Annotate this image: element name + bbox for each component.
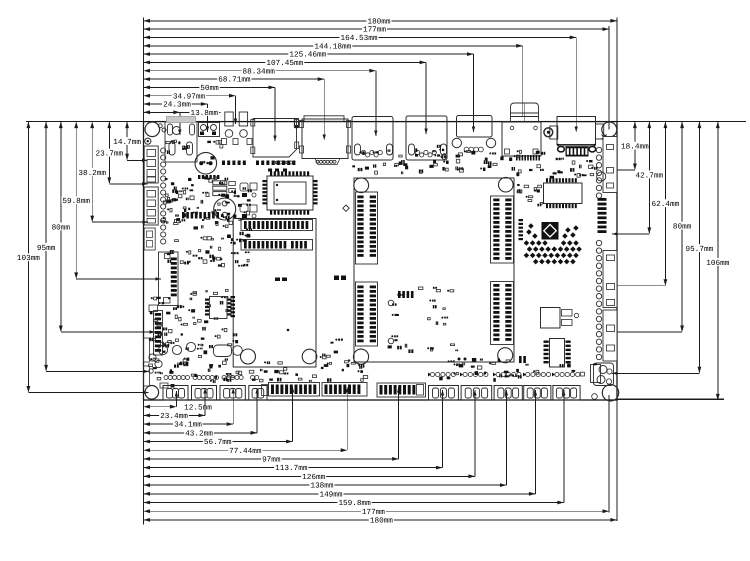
SoM interior circles bbox=[388, 300, 394, 306]
dimension bottom 180mm bbox=[144, 519, 617, 521]
wifi module U10 bottom pads bbox=[270, 210, 272, 214]
wifi module U10 inner bbox=[274, 182, 306, 204]
dimension top 164.53mm bbox=[144, 36, 577, 38]
dimension right 62.4mm bbox=[664, 122, 666, 285]
dimension bottom 126mm bbox=[144, 475, 475, 477]
svg-text:103mm: 103mm bbox=[17, 254, 40, 263]
dimension left 38.2mm bbox=[91, 122, 93, 222]
SoM connector left-bottom bbox=[356, 282, 378, 346]
FPC connector CN8 comb bbox=[149, 305, 158, 312]
audio block bottom-right bbox=[594, 363, 614, 386]
audio jack J3 stem bbox=[225, 112, 233, 126]
mounting hole top-right bbox=[602, 122, 617, 137]
connector block CB1 bbox=[429, 386, 459, 401]
SD slot smd dots bbox=[222, 161, 225, 166]
small comb pair bottom bbox=[519, 356, 522, 363]
mounting hole bottom-left bbox=[145, 386, 159, 400]
left bottom small parts bbox=[160, 383, 168, 388]
dimension top 13.8mm bbox=[144, 111, 221, 113]
svg-text:68.71mm: 68.71mm bbox=[218, 76, 251, 85]
svg-text:77.44mm: 77.44mm bbox=[229, 447, 262, 456]
svg-text:80mm: 80mm bbox=[52, 223, 71, 232]
buzzer BZ1 bbox=[195, 152, 217, 174]
svg-text:177mm: 177mm bbox=[362, 508, 385, 517]
svg-text:138mm: 138mm bbox=[310, 482, 333, 491]
smd pairs left of SoM bbox=[334, 276, 339, 281]
SoM connector left-top bbox=[356, 192, 378, 264]
svg-text:95mm: 95mm bbox=[37, 244, 56, 253]
IC U20 bottom pins bbox=[546, 204, 548, 208]
dimension left 14.7mm bbox=[126, 122, 128, 160]
smd pair inside mPCIe bbox=[275, 278, 280, 282]
reference line top-right horizontal bbox=[617, 121, 746, 123]
svg-text:95.7mm: 95.7mm bbox=[686, 245, 714, 254]
component cluster mid-left bbox=[224, 328, 227, 331]
component cluster SoM interior bbox=[430, 347, 434, 350]
power header comb bbox=[566, 147, 589, 157]
dimension top 34.97mm bbox=[144, 95, 236, 97]
svg-text:62.4mm: 62.4mm bbox=[652, 200, 680, 209]
dimension left 95mm bbox=[45, 122, 47, 371]
IC U22 right pins bbox=[566, 341, 571, 343]
dimension bottom 177mm bbox=[144, 510, 610, 512]
dimension top 50mm bbox=[144, 86, 276, 88]
pin row above TB2 bbox=[193, 376, 197, 380]
svg-text:38.2mm: 38.2mm bbox=[78, 169, 106, 178]
wifi module dots bbox=[276, 184, 278, 186]
USB CN2 tabs bbox=[300, 121, 304, 128]
left edge small slot bbox=[144, 228, 155, 250]
connector J2 header bbox=[199, 123, 220, 137]
diagonal component fan around QFN bbox=[524, 240, 530, 246]
connector block CB3 bbox=[494, 386, 522, 401]
dimension bottom 138mm bbox=[144, 484, 507, 486]
DC jack PWR1 bbox=[557, 117, 596, 145]
SD slot pin row bbox=[273, 161, 276, 164]
IC U22 SOIC body bbox=[550, 339, 565, 368]
fiducial diamond A bbox=[343, 205, 349, 211]
mounting hole top-left bbox=[145, 122, 160, 137]
svg-text:59.8mm: 59.8mm bbox=[62, 197, 90, 206]
crystal Y1 bbox=[214, 345, 232, 357]
audio CN4 pin comb bbox=[516, 155, 518, 161]
pin header comb bottom B bbox=[322, 383, 367, 397]
SoM connector right-top bbox=[491, 196, 514, 263]
dimension right 95.7mm bbox=[698, 122, 700, 373]
dimension right 80mm bbox=[681, 122, 683, 331]
wifi module U10 outline bbox=[267, 176, 313, 210]
dimension bottom 97mm bbox=[144, 458, 399, 460]
svg-text:126mm: 126mm bbox=[302, 473, 325, 482]
pin row above TB1 bbox=[164, 376, 168, 380]
svg-text:97mm: 97mm bbox=[262, 456, 281, 465]
wifi module U10 right pads bbox=[313, 180, 317, 182]
component cluster below mPCIe bbox=[309, 380, 310, 382]
bottom right small block bbox=[591, 365, 601, 383]
dimension bottom 12.5mm bbox=[144, 406, 177, 408]
audio jack J4 stem bbox=[239, 112, 247, 126]
left vias bottom bbox=[149, 354, 156, 361]
pin header comb bottom C bbox=[377, 383, 426, 397]
pin row above CB5 bbox=[555, 372, 559, 376]
dimension top 180mm bbox=[144, 20, 617, 22]
svg-text:56.7mm: 56.7mm bbox=[204, 438, 232, 447]
left edge connector CN5 bbox=[144, 146, 158, 183]
svg-text:149mm: 149mm bbox=[319, 490, 342, 499]
dimension right 18.4mm bbox=[634, 122, 636, 169]
mPCIe connector comb A bbox=[241, 220, 313, 231]
terminal block TB2 bbox=[192, 386, 217, 401]
mPCIe hole right bbox=[302, 349, 317, 364]
dimension bottom 23.4mm bbox=[144, 414, 206, 416]
SD card slot CN1 bbox=[253, 119, 297, 158]
connector block CB4 bbox=[524, 386, 551, 401]
dimension bottom 77.44mm bbox=[144, 449, 348, 451]
extension line bottom-right vertical bbox=[616, 400, 618, 521]
right pin hole column upper bbox=[596, 147, 601, 152]
svg-text:43.2mm: 43.2mm bbox=[185, 429, 213, 438]
pin row above CB4 bbox=[526, 372, 530, 376]
component cluster under CN4 bbox=[542, 152, 544, 155]
RJ45 jack LAN1 bbox=[352, 117, 393, 161]
dimension bottom 149mm bbox=[144, 493, 536, 495]
SoM hole left-bottom bbox=[353, 349, 368, 364]
SoM hole right-bottom bbox=[498, 348, 513, 363]
reference line bottom-right horizontal bbox=[617, 398, 724, 400]
dimension left 103mm bbox=[27, 122, 29, 392]
extension line hole-bottom vertical bbox=[608, 395, 610, 513]
connector J1 micro-USB body bbox=[165, 122, 197, 163]
IC U20 SOIC body bbox=[544, 183, 583, 204]
left pin header column bbox=[161, 148, 166, 153]
SoM hole right-top bbox=[499, 177, 514, 192]
dimension bottom 113.7mm bbox=[144, 467, 443, 469]
right screw ring bbox=[597, 172, 606, 181]
svg-text:159.8mm: 159.8mm bbox=[338, 499, 371, 508]
SoM connector right-bottom bbox=[491, 282, 514, 345]
dimension top 88.34mm bbox=[144, 70, 376, 72]
mPCIe hole left bbox=[241, 349, 256, 364]
SoM module outline bbox=[354, 178, 514, 362]
component cluster mid right bbox=[446, 168, 449, 171]
connector J1 pins bbox=[168, 124, 173, 135]
extension line top-right vertical bbox=[616, 18, 618, 122]
wifi module U10 top pads bbox=[270, 171, 272, 175]
transistor row bbox=[158, 345, 167, 354]
extension line hole-top vertical bbox=[608, 26, 610, 130]
screw hole H5 bbox=[544, 128, 553, 137]
terminal block TB4 bbox=[249, 386, 267, 401]
svg-text:113.7mm: 113.7mm bbox=[275, 464, 308, 473]
pin row above TB4 bbox=[251, 376, 255, 380]
top-right x mark bbox=[602, 135, 607, 140]
PCB board outline bbox=[144, 122, 618, 400]
component cluster above bottom row bbox=[321, 367, 324, 369]
dimension bottom 43.2mm bbox=[144, 432, 258, 434]
right edge block low bbox=[603, 310, 617, 361]
right edge block mid bbox=[603, 251, 617, 308]
component cluster top-left2 bbox=[203, 161, 204, 164]
wifi module U10 left pads bbox=[262, 180, 266, 182]
dimension top 107.45mm bbox=[144, 61, 427, 63]
svg-text:18.4mm: 18.4mm bbox=[621, 143, 649, 152]
pin row above CB3 bbox=[496, 372, 500, 376]
component cluster near QFN left bbox=[520, 190, 522, 193]
dimension top 125.46mm bbox=[144, 53, 474, 55]
pin row above CB1 bbox=[430, 372, 434, 376]
dimension top 177mm bbox=[144, 28, 610, 30]
comb row left cluster bbox=[182, 212, 185, 219]
dimension left 59.8mm bbox=[75, 122, 77, 278]
speaker SPK1 bbox=[214, 198, 236, 220]
svg-text:23.4mm: 23.4mm bbox=[160, 412, 188, 421]
pin header comb bottom A bbox=[262, 385, 269, 396]
mPCIe connector comb B bbox=[241, 240, 313, 251]
component cluster under LAN bbox=[429, 165, 433, 168]
left edge connector CN6 bbox=[144, 187, 158, 225]
component cluster above bottom right bbox=[504, 371, 509, 373]
right pin hole column lower bbox=[596, 240, 601, 245]
extension line left vertical bbox=[143, 18, 145, 525]
IC U20 top pins bbox=[546, 178, 548, 182]
svg-text:14.7mm: 14.7mm bbox=[113, 138, 141, 147]
dimension top 144.18mm bbox=[144, 45, 523, 47]
component cluster left of SoM bbox=[322, 354, 323, 357]
audio jack CN4 barrel bbox=[511, 103, 539, 122]
fiducial ring top-left bbox=[145, 138, 151, 144]
left edge pads bbox=[144, 338, 150, 362]
pin row above TB3 bbox=[222, 376, 226, 380]
USB dual CN3 bbox=[457, 116, 493, 138]
terminal block TB1 bbox=[163, 386, 188, 401]
DC jack tab left bbox=[550, 126, 558, 139]
QFN U21 bbox=[542, 222, 559, 240]
component cluster under DC bbox=[579, 174, 581, 176]
svg-text:34.1mm: 34.1mm bbox=[174, 421, 202, 430]
svg-text:80mm: 80mm bbox=[673, 223, 692, 232]
USB connector CN2 shell bbox=[302, 119, 348, 159]
reference line top-left horizontal bbox=[26, 121, 144, 123]
mounting hole bottom-right bbox=[602, 385, 618, 401]
dimension bottom 159.8mm bbox=[144, 502, 564, 504]
USB CN2 bottom pins bbox=[315, 159, 340, 165]
vertical dot strip bbox=[519, 219, 524, 221]
dimension top 24.3mm bbox=[144, 103, 208, 105]
terminal block TB3 bbox=[220, 386, 245, 401]
dimension top 68.71mm bbox=[144, 78, 325, 80]
FPC connector CN7 bbox=[159, 252, 179, 306]
RJ45 jack LAN2 bbox=[406, 116, 447, 160]
right edge comb bbox=[598, 198, 607, 201]
svg-text:180mm: 180mm bbox=[370, 517, 393, 526]
IC U5 SOIC bbox=[210, 297, 228, 319]
svg-text:23.7mm: 23.7mm bbox=[95, 150, 123, 159]
right edge block top bbox=[603, 137, 617, 193]
connector block CB5 bbox=[553, 386, 580, 401]
capacitor bank C10 bbox=[213, 181, 227, 185]
svg-text:12.5mm: 12.5mm bbox=[184, 403, 212, 412]
dimension right 106mm bbox=[717, 122, 719, 400]
IC U22 left pins bbox=[544, 341, 549, 343]
mPCIe module outline bbox=[233, 219, 316, 368]
black dot row bbox=[198, 175, 200, 179]
dimension left 23.7mm bbox=[108, 122, 110, 183]
dimension left 80mm bbox=[60, 122, 62, 331]
ethernet transformer T1 bbox=[541, 308, 561, 329]
antenna parts B bbox=[240, 204, 248, 212]
audio jack CN4 body bbox=[502, 122, 541, 156]
fiducial diamond B bbox=[441, 154, 447, 160]
bottom-right via bbox=[592, 394, 598, 400]
small vias top-left bbox=[158, 124, 162, 128]
dimension bottom 56.7mm bbox=[144, 441, 293, 443]
antenna parts A bbox=[240, 183, 248, 191]
pin row above CB2 bbox=[463, 372, 467, 376]
dimension right 42.7mm bbox=[648, 122, 650, 233]
component cluster top-left bbox=[190, 189, 194, 191]
vertical pad strip bbox=[231, 296, 236, 298]
card detect tab bbox=[294, 119, 298, 128]
svg-text:106mm: 106mm bbox=[706, 259, 729, 268]
svg-text:42.7mm: 42.7mm bbox=[635, 171, 663, 180]
DC jack tab right bbox=[596, 124, 604, 139]
dimension bottom 34.1mm bbox=[144, 423, 234, 425]
svg-text:24.3mm: 24.3mm bbox=[163, 101, 191, 110]
connector block CB2 bbox=[461, 386, 492, 401]
SoM hole left-top bbox=[354, 178, 369, 193]
